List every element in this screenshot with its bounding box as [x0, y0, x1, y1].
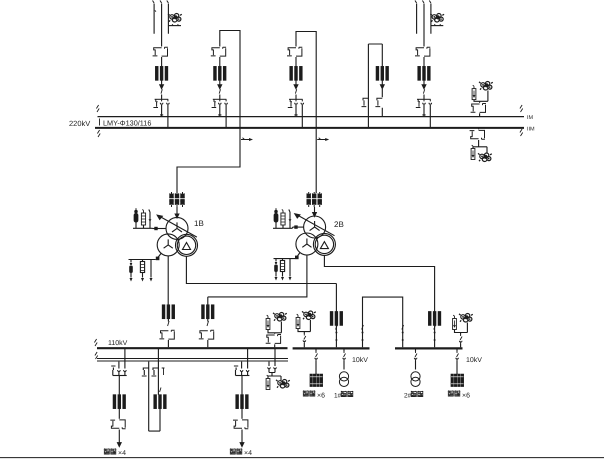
svg-text:10kV: 10kV — [466, 356, 482, 364]
svg-text:×4: ×4 — [244, 450, 252, 457]
svg-text:IIM: IIM — [527, 127, 535, 133]
svg-text:2B: 2B — [334, 220, 344, 229]
svg-text:220kV: 220kV — [69, 119, 90, 128]
svg-text:1#: 1# — [334, 393, 342, 400]
svg-text:1B: 1B — [194, 219, 204, 228]
svg-text:×6: ×6 — [317, 393, 325, 400]
svg-text:LMY-Φ130/116: LMY-Φ130/116 — [103, 119, 151, 128]
svg-text:IM: IM — [527, 115, 534, 121]
svg-text:10kV: 10kV — [352, 356, 368, 364]
svg-text:×4: ×4 — [118, 450, 126, 457]
svg-text:2#: 2# — [404, 393, 412, 400]
svg-text:110kV: 110kV — [108, 339, 128, 347]
svg-text:×6: ×6 — [462, 393, 470, 400]
